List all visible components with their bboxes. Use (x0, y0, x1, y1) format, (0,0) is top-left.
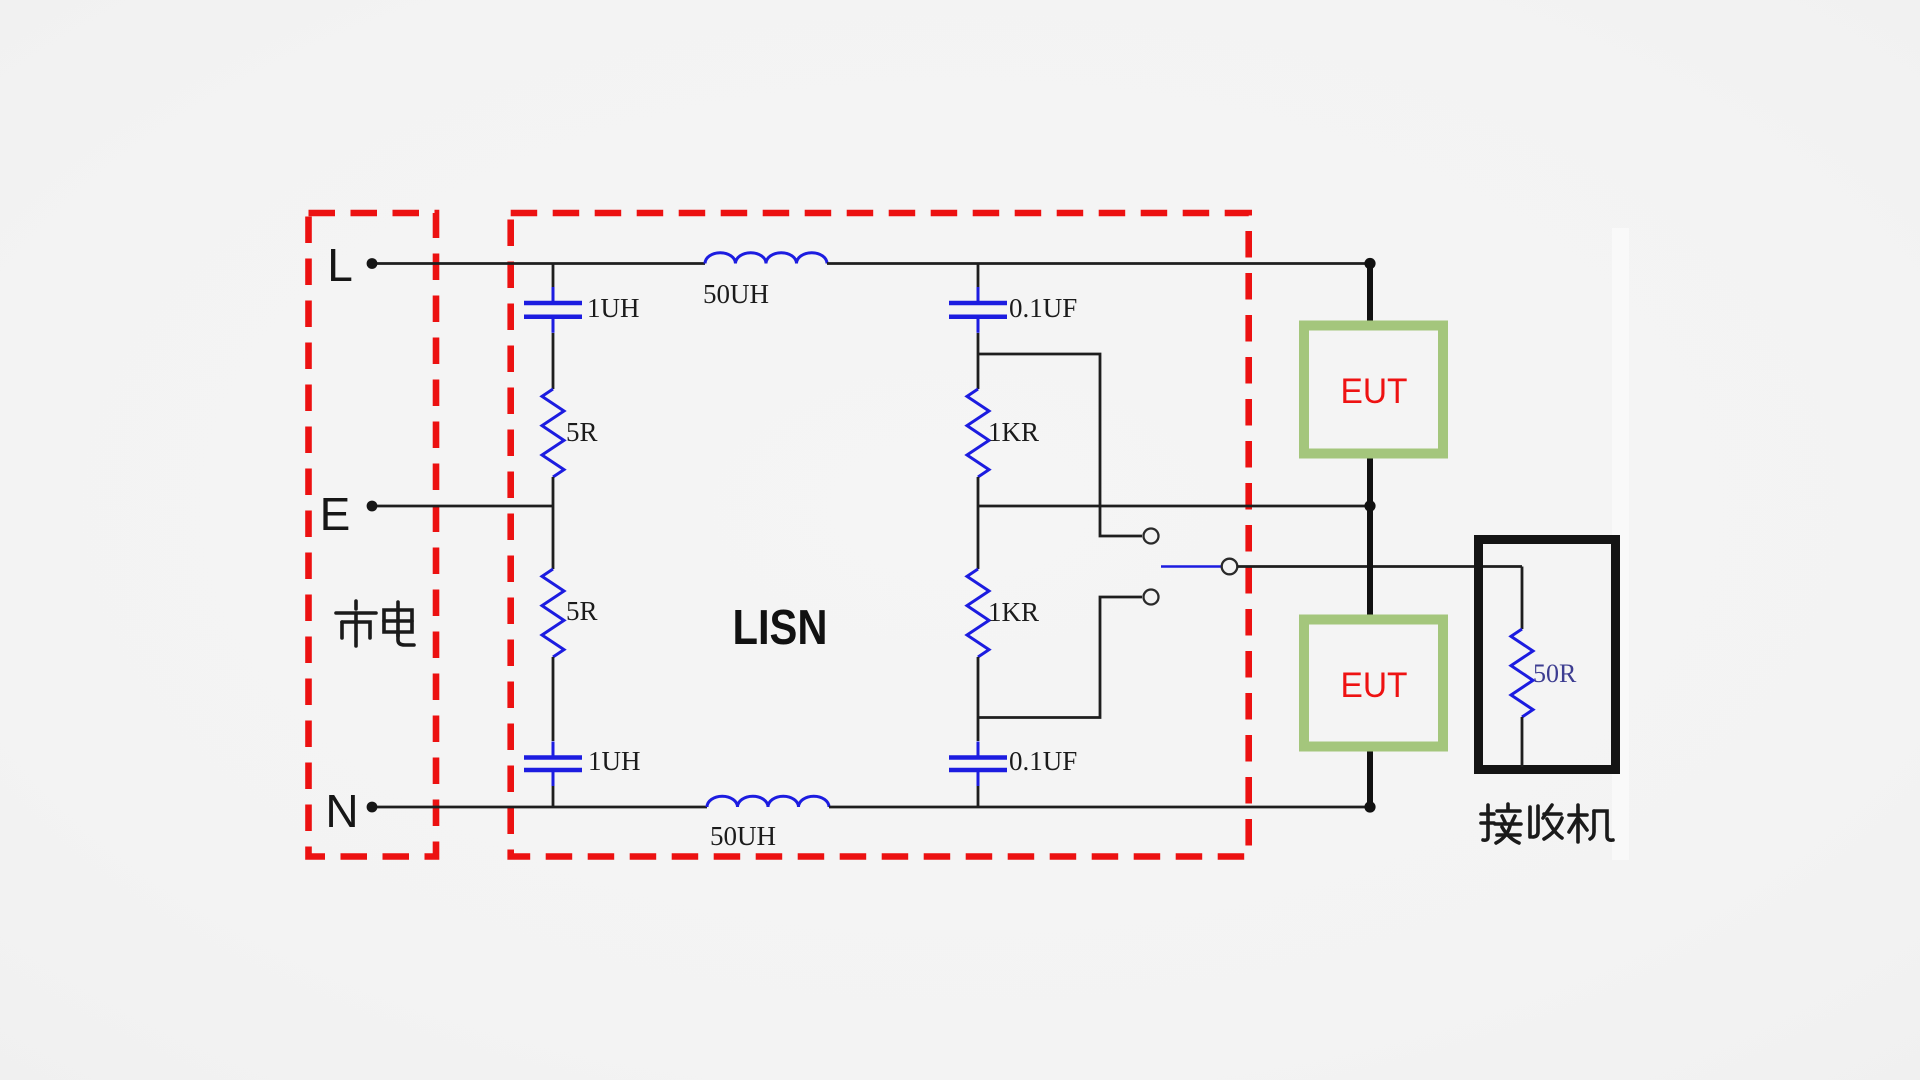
capacitor C2 1UH (bottom-left) (552, 742, 555, 758)
svg-text:0.1UF: 0.1UF (1009, 293, 1077, 323)
left column wire segments (x=553) (552, 264, 555, 288)
svg-text:50UH: 50UH (710, 821, 776, 851)
EUT box 2 (1304, 620, 1443, 747)
wire (977, 657, 980, 741)
wire branch upper (to switch contact) (978, 354, 1142, 536)
inductor L1 50UH (top) (705, 253, 827, 264)
svg-text:EUT: EUT (1341, 666, 1408, 705)
svg-text:L: L (327, 239, 353, 291)
resistor R1 5R (upper-left) (542, 389, 564, 477)
wire from switch pivot to receiver (1238, 565, 1523, 568)
wire: E line right segment (978, 505, 1370, 508)
wire branch lower (to switch contact) (978, 597, 1142, 718)
wire: L line left segment (372, 262, 705, 265)
node L dot (367, 258, 378, 269)
svg-text:50UH: 50UH (703, 279, 769, 309)
wire inside receiver (1521, 567, 1524, 630)
receiver box (接收机) (1479, 540, 1616, 770)
wire (552, 657, 555, 741)
resistor R2 5R (lower-left) (542, 569, 564, 657)
wire with branch junction (977, 333, 980, 389)
resistor R5 50R (1511, 629, 1533, 717)
junction dot (bus, L) (1364, 258, 1375, 269)
svg-text:0.1UF: 0.1UF (1009, 746, 1077, 776)
wire: N line left segment (372, 806, 707, 809)
capacitor C4 0.1UF (bottom-right) (977, 742, 980, 758)
wire below 50R (1521, 717, 1524, 767)
svg-text:E: E (320, 488, 351, 540)
svg-text:1UH: 1UH (588, 746, 641, 776)
wire: L line right segment (827, 262, 1370, 265)
mains dashed box (市电) (309, 213, 437, 857)
label 接收机 (hand-drawn) (1481, 804, 1521, 843)
svg-text:N: N (325, 785, 358, 837)
resistor R4 1KR (lower-right) (967, 569, 989, 657)
EUT box 1 (1304, 326, 1443, 454)
svg-text:EUT: EUT (1341, 372, 1408, 411)
wire (977, 786, 980, 807)
right column wire segments (x=978) (977, 264, 980, 288)
svg-text:5R: 5R (566, 417, 598, 447)
wire through E junction (977, 477, 980, 569)
svg-text:1UH: 1UH (587, 293, 640, 323)
capacitor C3 0.1UF (top-right) (977, 287, 980, 303)
svg-text:1KR: 1KR (988, 597, 1039, 627)
node E dot (367, 501, 378, 512)
junction dot (bus, N) (1364, 801, 1375, 812)
switch S1 upper contact (1144, 529, 1159, 544)
capacitor C1 1UH (top-left) (552, 287, 555, 303)
switch S1 pivot (1222, 559, 1238, 575)
resistor R3 1KR (upper-right) (967, 389, 989, 477)
switch S1 blue lever (1161, 565, 1221, 568)
wire through E junction (552, 477, 555, 569)
wire (552, 786, 555, 807)
node N dot (367, 802, 378, 813)
svg-text:5R: 5R (566, 596, 598, 626)
svg-text:LISN: LISN (733, 601, 828, 655)
thick bus segments (x=1370) (1367, 264, 1373, 323)
svg-text:1KR: 1KR (988, 417, 1039, 447)
junction dot (bus, E) (1364, 500, 1375, 511)
inductor L2 50UH (bottom) (707, 796, 829, 807)
wire (552, 333, 555, 389)
wire: N line right segment (829, 806, 1370, 809)
wire: E line left segment (372, 505, 553, 508)
LISN dashed box (511, 213, 1249, 857)
label 市电 (hand-drawn) (336, 601, 376, 646)
switch S1 lower contact (1144, 590, 1159, 605)
svg-text:50R: 50R (1533, 659, 1577, 688)
